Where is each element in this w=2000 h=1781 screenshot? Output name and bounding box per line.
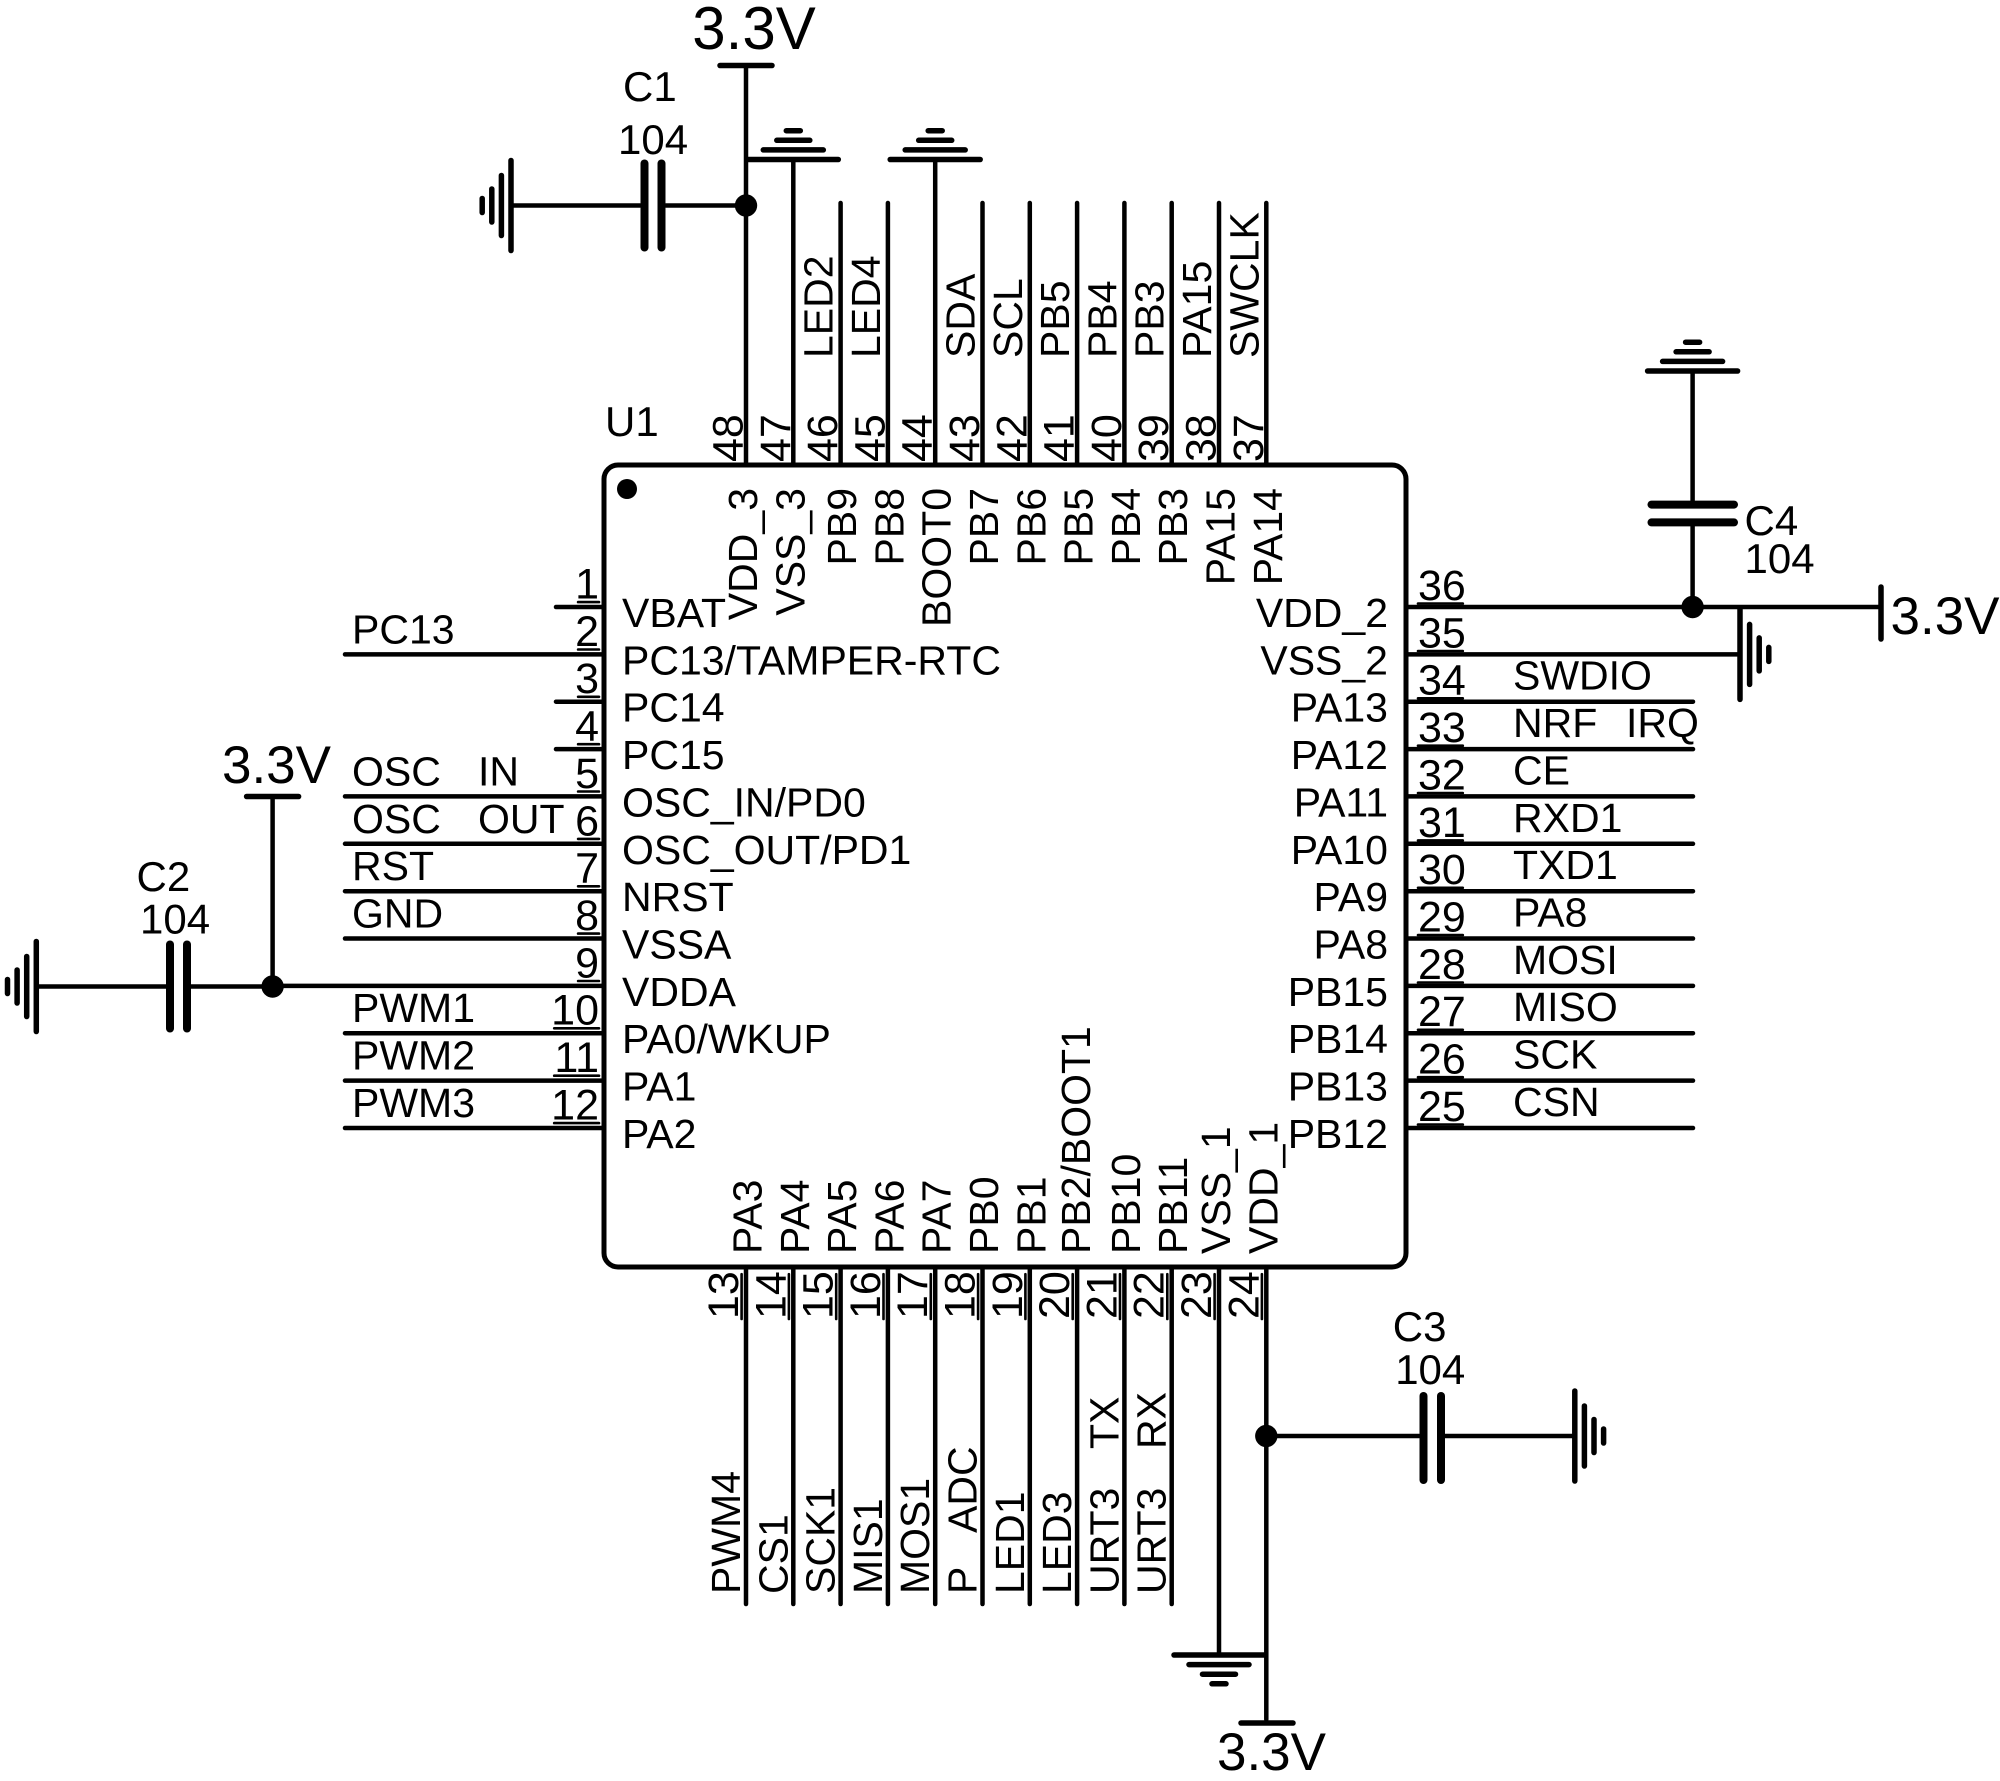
pin 46 PB9 (top) — [799, 203, 865, 566]
svg-text:PB3: PB3 — [1150, 488, 1196, 566]
pin 36 VDD_2 (right) — [1256, 562, 1879, 636]
svg-text:PC13: PC13 — [352, 606, 455, 652]
svg-text:ADC: ADC — [940, 1446, 986, 1533]
pin 5 OSC_IN/PD0 (left) — [345, 750, 866, 826]
svg-text:OSC: OSC — [352, 796, 441, 842]
net label PA15 (pin 38) — [1174, 261, 1220, 358]
net label LED3 (pin 20) — [1034, 1491, 1080, 1594]
net label PWM3 (pin 12) — [352, 1080, 475, 1126]
svg-text:3.3V: 3.3V — [222, 736, 332, 795]
net label CSN (pin 25) — [1513, 1079, 1600, 1125]
value 104 (C4) — [1745, 535, 1815, 582]
svg-text:PB15: PB15 — [1288, 969, 1388, 1015]
pin 4 PC15 (left) — [556, 703, 725, 779]
svg-text:PB8: PB8 — [866, 488, 912, 566]
pin 42 PB6 (top) — [988, 203, 1054, 566]
svg-text:PA15: PA15 — [1174, 261, 1220, 358]
svg-text:C1: C1 — [623, 63, 677, 110]
svg-text:PB12: PB12 — [1288, 1111, 1388, 1157]
net label MOSI (pin 28) — [1513, 937, 1618, 983]
ground (pin 23 VSS_1) — [1174, 1655, 1264, 1684]
svg-text:PB10: PB10 — [1103, 1154, 1149, 1254]
svg-text:PB9: PB9 — [819, 488, 865, 566]
pin 6 OSC_OUT/PD1 (left) — [345, 797, 911, 873]
pin 26 PB13 (right) — [1288, 1036, 1693, 1110]
capacitor C2 — [170, 945, 187, 1029]
svg-text:C3: C3 — [1393, 1303, 1447, 1350]
svg-text:PA14: PA14 — [1245, 488, 1291, 585]
net label OSC OUT (pin 6) — [352, 796, 565, 842]
svg-text:OSC_OUT/PD1: OSC_OUT/PD1 — [622, 827, 911, 873]
pin 39 PB3 (top) — [1130, 203, 1196, 566]
label C1 — [623, 63, 677, 110]
svg-text:PA7: PA7 — [914, 1180, 960, 1254]
svg-text:PA2: PA2 — [622, 1111, 696, 1157]
wire ground to C4 — [1690, 373, 1695, 501]
svg-text:PA4: PA4 — [772, 1180, 818, 1254]
net label SDA (pin 43) — [938, 273, 984, 358]
label C3 — [1393, 1303, 1447, 1350]
capacitor C3 — [1424, 1396, 1442, 1480]
svg-text:PA1: PA1 — [622, 1064, 696, 1110]
net label SCK (pin 26) — [1513, 1032, 1597, 1078]
svg-text:VSSA: VSSA — [622, 922, 732, 968]
wire node to C3 — [1266, 1434, 1419, 1439]
net label RST (pin 7) — [352, 843, 434, 889]
svg-text:3.3V: 3.3V — [692, 0, 815, 62]
pin 10 PA0/WKUP (left) — [345, 987, 831, 1063]
pin 27 PB14 (right) — [1288, 988, 1693, 1062]
svg-text:OSC: OSC — [352, 748, 441, 794]
svg-text:PA0/WKUP: PA0/WKUP — [622, 1016, 831, 1062]
power 3.3V (top) — [692, 0, 815, 66]
net label RXD1 (pin 31) — [1513, 795, 1622, 841]
svg-text:LED1: LED1 — [987, 1491, 1033, 1594]
wire C4 to node — [1690, 526, 1695, 607]
pin 3 PC14 (left) — [556, 655, 725, 731]
svg-text:37: 37 — [1225, 414, 1273, 462]
svg-text:TXD1: TXD1 — [1513, 842, 1618, 888]
pin 40 PB4 (top) — [1083, 203, 1149, 566]
svg-text:RST: RST — [352, 843, 434, 889]
svg-text:38: 38 — [1178, 414, 1226, 462]
svg-text:40: 40 — [1083, 414, 1131, 462]
ground (pin 35 VSS_2) — [1740, 609, 1769, 699]
pin 19 PB1 (bottom) — [984, 1177, 1055, 1605]
pin 25 PB12 (right) — [1288, 1083, 1693, 1157]
junction node (C3 / 3.3V / pin24) — [1255, 1425, 1277, 1447]
net label P ADC (pin 18) — [940, 1446, 986, 1594]
net label LED4 (pin 45) — [843, 255, 889, 358]
wire C2 to node — [191, 984, 273, 989]
svg-text:CSN: CSN — [1513, 1079, 1600, 1125]
svg-text:SCL: SCL — [985, 278, 1031, 358]
net label GND (pin 8) — [352, 891, 443, 937]
net label MIS1 (pin 16) — [845, 1498, 891, 1594]
svg-text:PC14: PC14 — [622, 685, 725, 731]
svg-text:PB13: PB13 — [1288, 1064, 1388, 1110]
svg-text:44: 44 — [894, 414, 942, 462]
svg-text:PA11: PA11 — [1294, 779, 1388, 825]
svg-text:104: 104 — [1395, 1346, 1465, 1393]
IC U1 body — [604, 465, 1406, 1267]
svg-text:VDD_1: VDD_1 — [1240, 1122, 1286, 1254]
svg-text:PB5: PB5 — [1032, 281, 1078, 359]
svg-text:PWM4: PWM4 — [703, 1471, 749, 1594]
svg-text:CS1: CS1 — [750, 1514, 796, 1594]
svg-text:MOSI: MOSI — [1513, 937, 1618, 983]
svg-text:PA5: PA5 — [819, 1180, 865, 1254]
pin 15 PA5 (bottom) — [795, 1180, 866, 1604]
capacitor C4 — [1652, 505, 1735, 523]
value 104 (C1) — [618, 116, 688, 163]
svg-text:OUT: OUT — [478, 796, 565, 842]
pin 24 VDD_1 (bottom) — [1220, 1122, 1286, 1720]
pin 2 PC13/TAMPER-RTC (left) — [345, 608, 1001, 684]
svg-text:PB2/BOOT1: PB2/BOOT1 — [1053, 1026, 1099, 1254]
pin 23 VSS_1 (bottom) — [1173, 1126, 1239, 1652]
pin 16 PA6 (bottom) — [842, 1180, 913, 1604]
svg-text:LED2: LED2 — [796, 255, 842, 358]
pin 41 PB5 (top) — [1036, 203, 1102, 566]
net label CS1 (pin 14) — [750, 1514, 796, 1594]
svg-text:PB0: PB0 — [961, 1177, 1007, 1255]
ground (at C1) — [482, 161, 511, 251]
pin 18 PB0 (bottom) — [937, 1177, 1008, 1605]
svg-text:U1: U1 — [605, 398, 659, 445]
net label PB4 (pin 40) — [1079, 281, 1125, 359]
ground (at C3) — [1575, 1391, 1604, 1481]
wire C1 to node — [666, 203, 746, 208]
pin 31 PA10 (right) — [1291, 799, 1693, 873]
svg-text:PA8: PA8 — [1314, 922, 1388, 968]
svg-text:PWM3: PWM3 — [352, 1080, 475, 1126]
svg-text:104: 104 — [1745, 535, 1815, 582]
power 3.3V (left) — [222, 736, 332, 987]
svg-text:48: 48 — [705, 414, 753, 462]
net label SCL (pin 42) — [985, 278, 1031, 358]
svg-text:PA9: PA9 — [1314, 874, 1388, 920]
svg-text:MOS1: MOS1 — [892, 1478, 938, 1594]
ground (pin 47 VSS_3) — [748, 131, 838, 160]
pin 34 PA13 (right) — [1291, 657, 1693, 731]
svg-text:104: 104 — [618, 116, 688, 163]
svg-text:PB1: PB1 — [1008, 1177, 1054, 1255]
svg-text:BOOT0: BOOT0 — [914, 488, 960, 627]
net label TXD1 (pin 30) — [1513, 842, 1618, 888]
pin 21 PB10 (bottom) — [1078, 1154, 1149, 1604]
svg-text:RX: RX — [1129, 1392, 1175, 1449]
value 104 (C3) — [1395, 1346, 1465, 1393]
svg-text:SCK: SCK — [1513, 1032, 1597, 1078]
svg-text:PA15: PA15 — [1198, 488, 1244, 585]
svg-text:C2: C2 — [137, 853, 191, 900]
pin 22 PB11 (bottom) — [1126, 1157, 1197, 1604]
pin 17 PA7 (bottom) — [889, 1180, 960, 1604]
svg-text:45: 45 — [846, 414, 894, 462]
svg-text:VSS_2: VSS_2 — [1260, 637, 1388, 683]
pin 47 VSS_3 (top) — [752, 161, 814, 616]
pin 12 PA2 (left) — [345, 1082, 696, 1158]
power 3.3V (right) — [1881, 587, 2000, 646]
svg-text:GND: GND — [352, 891, 443, 937]
svg-text:PWM2: PWM2 — [352, 1033, 475, 1079]
svg-text:3.3V: 3.3V — [1217, 1723, 1327, 1781]
svg-text:SDA: SDA — [938, 273, 984, 358]
net label URT3 RX (pin 22) — [1129, 1392, 1175, 1594]
svg-text:LED3: LED3 — [1034, 1491, 1080, 1594]
svg-text:LED4: LED4 — [843, 255, 889, 358]
pin 28 PB15 (right) — [1288, 941, 1693, 1015]
svg-text:URT3: URT3 — [1081, 1488, 1127, 1594]
svg-text:PWM1: PWM1 — [352, 985, 475, 1031]
net label PWM4 (pin 13) — [703, 1471, 749, 1594]
svg-text:VSS_1: VSS_1 — [1193, 1126, 1239, 1254]
svg-text:PB11: PB11 — [1150, 1157, 1196, 1254]
pin 38 PA15 (top) — [1178, 203, 1244, 585]
svg-text:SWDIO: SWDIO — [1513, 653, 1652, 699]
net label PB5 (pin 41) — [1032, 281, 1078, 359]
net label PWM2 (pin 11) — [352, 1033, 475, 1079]
svg-text:PA6: PA6 — [866, 1180, 912, 1254]
svg-text:IRQ: IRQ — [1626, 700, 1699, 746]
svg-text:PA13: PA13 — [1291, 685, 1388, 731]
svg-text:PB4: PB4 — [1103, 488, 1149, 566]
pin 29 PA8 (right) — [1314, 894, 1693, 968]
svg-text:MISO: MISO — [1513, 984, 1618, 1030]
net label SCK1 (pin 15) — [798, 1487, 844, 1594]
net label SWCLK (pin 37) — [1221, 212, 1267, 358]
net label PB3 (pin 39) — [1127, 281, 1173, 359]
wire C3 to ground — [1446, 1434, 1573, 1439]
net label LED2 (pin 46) — [796, 255, 842, 358]
svg-text:PB3: PB3 — [1127, 281, 1173, 359]
refdes U1 — [605, 398, 659, 445]
svg-text:39: 39 — [1130, 414, 1178, 462]
svg-text:CE: CE — [1513, 747, 1570, 793]
net label MISO (pin 27) — [1513, 984, 1618, 1030]
svg-text:3.3V: 3.3V — [1891, 587, 2000, 646]
pin 48 VDD_3 (top) — [705, 66, 767, 621]
net label SWDIO (pin 34) — [1513, 653, 1652, 699]
power 3.3V (bottom) — [1217, 1723, 1327, 1781]
svg-text:PA3: PA3 — [725, 1180, 771, 1254]
net label PWM1 (pin 10) — [352, 985, 475, 1031]
svg-text:PB4: PB4 — [1079, 281, 1125, 359]
svg-text:VDDA: VDDA — [622, 969, 737, 1015]
pin 33 PA12 (right) — [1291, 704, 1693, 778]
net label OSC IN (pin 5) — [352, 748, 519, 794]
wire ground to C1 — [511, 203, 640, 208]
net label PA8 (pin 29) — [1513, 890, 1587, 936]
pin 8 VSSA (left) — [345, 892, 732, 968]
svg-text:PC13/TAMPER-RTC: PC13/TAMPER-RTC — [622, 637, 1001, 683]
svg-text:SCK1: SCK1 — [798, 1487, 844, 1594]
pin 14 PA4 (bottom) — [747, 1180, 818, 1604]
pin 43 PB7 (top) — [941, 203, 1007, 566]
value 104 (C2) — [140, 896, 210, 943]
svg-text:P: P — [940, 1567, 986, 1594]
wire ground to C2 — [36, 984, 166, 989]
svg-text:MIS1: MIS1 — [845, 1498, 891, 1594]
svg-text:NRF: NRF — [1513, 700, 1597, 746]
net label PC13 (pin 2) — [352, 606, 455, 652]
pin 1 VBAT (left) — [556, 561, 726, 637]
svg-text:42: 42 — [988, 414, 1036, 462]
label C4 — [1745, 497, 1799, 544]
pin 13 PA3 (bottom) — [700, 1180, 771, 1604]
svg-text:41: 41 — [1036, 414, 1084, 462]
pin 45 PB8 (top) — [846, 203, 912, 566]
svg-text:PB6: PB6 — [1008, 488, 1054, 566]
ground (pin 44 BOOT0) — [890, 131, 980, 160]
svg-text:TX: TX — [1081, 1397, 1127, 1449]
svg-text:47: 47 — [752, 414, 800, 462]
svg-text:IN: IN — [478, 748, 519, 794]
svg-text:43: 43 — [941, 414, 989, 462]
pin 30 PA9 (right) — [1314, 846, 1693, 920]
junction node (C4 / 3.3V / pin36) — [1681, 596, 1703, 618]
label C2 — [137, 853, 191, 900]
ground (at C2) — [8, 942, 37, 1032]
net label LED1 (pin 19) — [987, 1491, 1033, 1594]
svg-text:PC15: PC15 — [622, 732, 725, 778]
net label URT3 TX (pin 21) — [1081, 1397, 1127, 1594]
svg-text:PB14: PB14 — [1288, 1016, 1388, 1062]
capacitor C1 — [645, 164, 662, 248]
svg-text:PA8: PA8 — [1513, 890, 1587, 936]
pin 44 BOOT0 (top) — [894, 161, 960, 627]
svg-text:OSC_IN/PD0: OSC_IN/PD0 — [622, 779, 866, 825]
pin 7 NRST (left) — [345, 845, 734, 921]
svg-text:PA12: PA12 — [1291, 732, 1388, 778]
net label NRF IRQ (pin 33) — [1513, 700, 1699, 746]
svg-text:PB5: PB5 — [1056, 488, 1102, 566]
net label MOS1 (pin 17) — [892, 1478, 938, 1594]
svg-text:PB7: PB7 — [961, 488, 1007, 566]
pin 32 PA11 (right) — [1294, 751, 1693, 825]
pin 37 PA14 (top) — [1225, 203, 1291, 585]
svg-text:104: 104 — [140, 896, 210, 943]
ground (at C4) — [1648, 342, 1738, 371]
svg-text:URT3: URT3 — [1129, 1488, 1175, 1594]
svg-text:VBAT: VBAT — [622, 590, 726, 636]
pin 20 PB2/BOOT1 (bottom) — [1031, 1026, 1099, 1604]
svg-text:VDD_3: VDD_3 — [720, 488, 766, 620]
pin 35 VSS_2 (right) — [1260, 609, 1737, 683]
pin 9 VDDA (left) — [273, 939, 737, 1015]
svg-text:SWCLK: SWCLK — [1221, 212, 1267, 358]
junction node (C2 / 3.3V / pin9) — [261, 975, 283, 997]
pin 11 PA1 (left) — [345, 1034, 696, 1110]
svg-text:RXD1: RXD1 — [1513, 795, 1622, 841]
junction node (C1 / 3.3V / pin48) — [735, 194, 757, 216]
net label CE (pin 32) — [1513, 747, 1570, 793]
svg-text:46: 46 — [799, 414, 847, 462]
svg-text:VSS_3: VSS_3 — [767, 488, 813, 616]
svg-text:PA10: PA10 — [1291, 827, 1388, 873]
svg-text:VDD_2: VDD_2 — [1256, 590, 1388, 636]
svg-text:NRST: NRST — [622, 874, 734, 920]
